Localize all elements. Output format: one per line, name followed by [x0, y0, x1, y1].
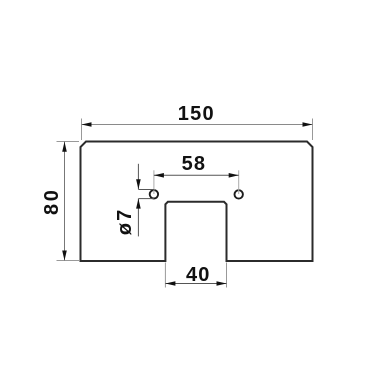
dimension 58 line	[154, 174, 239, 176]
dimension 80 extension line bottom	[57, 260, 80, 262]
dimension 80 arrow bottom	[62, 251, 67, 261]
dimension dia7 arrow up	[136, 199, 141, 209]
dimension 40 extension line right	[226, 263, 228, 288]
dimension 58 extension line left	[153, 170, 155, 194]
svg-text:80: 80	[41, 188, 63, 215]
dimension dia7 leader line lower	[137, 199, 139, 237]
dimension 80 line	[64, 142, 66, 261]
dimension 150 extension line right	[312, 119, 314, 141]
dimension 40 line	[165, 283, 226, 285]
svg-text:ø7: ø7	[114, 208, 136, 235]
dimension 58 arrow right	[229, 173, 239, 178]
dimension dia7 leader line upper	[137, 164, 139, 190]
dimension 80 arrow top	[62, 142, 67, 152]
dimension 150 extension line left	[81, 119, 83, 141]
dimension 40 arrow left	[165, 281, 175, 286]
dimension dia7 tangent line bottom	[138, 198, 154, 200]
dimension 40 extension line left	[164, 263, 166, 288]
dimension 150 line	[82, 124, 313, 126]
dimension dia7 arrow down	[136, 179, 141, 189]
dimension 40 arrow right	[217, 281, 227, 286]
hole left	[150, 190, 158, 198]
svg-text:40: 40	[186, 264, 211, 286]
svg-text:58: 58	[182, 153, 207, 175]
dimension 58 arrow left	[154, 173, 164, 178]
part outline	[81, 142, 313, 262]
dimension 80 extension line top	[57, 141, 80, 143]
dimension dia7 tangent line top	[138, 189, 154, 191]
dimension 150 arrow left	[82, 122, 92, 127]
svg-text:150: 150	[178, 103, 215, 125]
hole right	[235, 190, 243, 198]
dimension 58 extension line right	[238, 170, 240, 194]
dimension 150 arrow right	[303, 122, 313, 127]
